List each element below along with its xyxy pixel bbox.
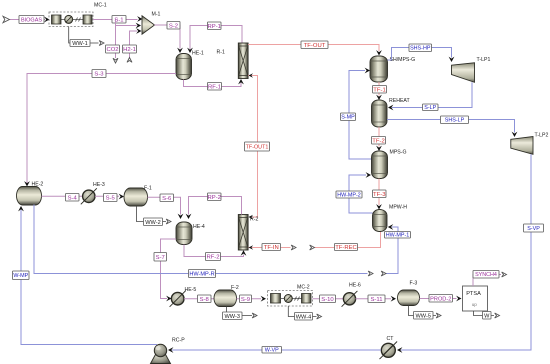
stream connector WW-4 open arrow — [317, 314, 322, 319]
stream label S-5 — [104, 194, 118, 202]
wire TF-1 — [378, 82, 380, 96]
turbine T-LP2 — [511, 137, 533, 155]
stream label S-3 — [92, 70, 106, 78]
wire TF-OUT1 — [248, 76, 257, 218]
svg-text:S-3: S-3 — [94, 72, 104, 78]
svg-text:REHEAT: REHEAT — [389, 98, 410, 104]
stream label S-7 — [154, 253, 167, 262]
heater HE-6 — [343, 293, 355, 305]
svg-text:W-MP: W-MP — [13, 273, 28, 279]
wire HW-MP-1 — [386, 227, 398, 274]
compressor MC-2 stage 2 — [302, 294, 312, 304]
wire PROD-2 — [420, 298, 457, 300]
wire RP-2 — [189, 197, 242, 215]
arrow S-5 into F-1 — [119, 194, 124, 200]
wire S-11 — [356, 298, 392, 300]
stream connector SYNCH4 open arrow — [502, 272, 507, 277]
stream connector TF-IN open arrow — [291, 245, 296, 250]
svg-text:TF-1: TF-1 — [373, 87, 385, 93]
svg-text:R-2: R-2 — [250, 217, 258, 223]
stream label RP-1 — [208, 22, 222, 30]
svg-text:T-LP2: T-LP2 — [535, 133, 549, 139]
svg-text:MC-1: MC-1 — [94, 3, 107, 9]
wire S-MP — [349, 71, 372, 160]
wire S-9 — [237, 298, 262, 300]
stream connector BIOGAS inlet open arrow — [3, 16, 10, 22]
svg-text:SHS-LP: SHS-LP — [445, 118, 465, 124]
arrow TF-OUT1 into R-2 — [249, 215, 254, 220]
svg-text:F-1: F-1 — [144, 186, 152, 192]
vessel HE-1 — [176, 54, 192, 80]
stream label CO2 — [106, 45, 120, 53]
svg-text:CT: CT — [387, 336, 395, 342]
svg-text:HE-6: HE-6 — [349, 283, 361, 289]
compressor MC-2 intercooler — [284, 295, 292, 303]
stream label TF-2 — [372, 137, 386, 145]
svg-text:WW-4: WW-4 — [296, 314, 311, 320]
arrow S-LP into REHEAT — [388, 105, 393, 111]
svg-text:RF-2: RF-2 — [206, 255, 219, 261]
stream connector TF-REC open arrow — [310, 245, 315, 250]
svg-text:W: W — [484, 313, 490, 319]
pump RC-P — [151, 354, 171, 364]
arrow S-VP into CT — [397, 347, 402, 353]
wire S-6 — [148, 197, 181, 214]
compressor MC-2 dashed box — [268, 291, 313, 307]
svg-text:T-LP1: T-LP1 — [477, 57, 491, 63]
stream label WW-1 — [70, 40, 90, 47]
svg-text:MPS-G: MPS-G — [390, 150, 407, 156]
stream label RF-1 — [208, 83, 222, 91]
wire SHS-LP — [387, 120, 515, 133]
wire WW-2 — [137, 206, 167, 222]
svg-text:RC-P: RC-P — [172, 338, 185, 344]
arrow RF-1 into R-1 — [238, 79, 244, 84]
stream connector WW-5 open arrow — [436, 313, 441, 318]
compressor MC-2 stage 1 — [271, 294, 281, 304]
wire S-1 — [93, 19, 138, 21]
wire SHS-HP — [388, 48, 452, 61]
stream label TF-IN — [262, 244, 281, 251]
svg-text:S-4: S-4 — [68, 195, 78, 201]
vessel SH/MPS-G — [370, 56, 388, 82]
arrow RP-2 into HE-4 — [186, 214, 192, 219]
arrow S-7 into HE-5 — [166, 296, 171, 302]
compressor MC-2 shaft breaks — [295, 297, 297, 301]
stream label RF-2 — [206, 253, 221, 261]
stream label TF-3 — [373, 190, 387, 198]
stream label WW-2 — [144, 218, 163, 226]
compressor MC-1 stage 1 — [52, 15, 62, 24]
stream label SHS-LP — [441, 116, 469, 124]
svg-text:F-2: F-2 — [231, 285, 239, 291]
wire S-5 — [95, 195, 119, 197]
wire SYNCH4 — [473, 275, 501, 287]
svg-text:HE-1: HE-1 — [192, 51, 204, 57]
svg-text:SYNCH4: SYNCH4 — [475, 272, 497, 278]
svg-text:S-10: S-10 — [321, 297, 334, 303]
arrow W-VP into RC-P — [168, 347, 173, 353]
wire S-8 — [184, 298, 214, 300]
svg-text:S-7: S-7 — [156, 255, 165, 261]
svg-text:S-VP: S-VP — [527, 226, 540, 232]
stream label S-1 — [112, 16, 126, 24]
wire TF-REC — [315, 232, 381, 248]
reactor column R-2 — [238, 215, 248, 251]
svg-text:HE-4: HE-4 — [193, 224, 205, 230]
stream label TF-OUT — [301, 41, 328, 49]
stream label HW-MP-1 — [385, 232, 411, 239]
svg-text:HW-MP-1: HW-MP-1 — [386, 233, 410, 239]
svg-text:S-9: S-9 — [241, 297, 250, 303]
svg-text:TF-OUT: TF-OUT — [304, 43, 326, 49]
svg-text:MPW-H: MPW-H — [389, 205, 407, 211]
svg-text:S-LP: S-LP — [424, 105, 436, 111]
svg-text:S-5: S-5 — [106, 196, 116, 202]
arrow HW-MP-2 into MPS-G — [366, 172, 371, 178]
wire WW-5 — [409, 306, 437, 316]
wire RF-2 — [184, 245, 244, 257]
arrow TF-IN into R-2 — [249, 245, 254, 250]
reactor column R-1 — [238, 43, 248, 79]
vessel HE-2 — [17, 187, 42, 206]
svg-text:SH/MPS-G: SH/MPS-G — [390, 57, 416, 63]
svg-text:WW-3: WW-3 — [225, 314, 240, 320]
arrow TF-3 into MPW-H — [376, 204, 382, 209]
arrow S-6 into HE-4 — [178, 214, 184, 219]
wire W — [474, 311, 495, 316]
svg-text:HE-5: HE-5 — [185, 287, 197, 293]
wire S-4 — [42, 195, 83, 197]
vessel F-3 — [398, 290, 420, 306]
wire S-2 — [155, 25, 181, 49]
wire RP-1 — [190, 26, 242, 50]
stream connector HW-MP-R open arrow — [368, 271, 373, 276]
svg-text:TF-REC: TF-REC — [335, 245, 357, 251]
heater HE-5 — [171, 292, 184, 305]
svg-text:RP-2: RP-2 — [208, 195, 221, 201]
svg-text:TF-2: TF-2 — [372, 138, 384, 144]
stream label SHS-HP — [409, 44, 432, 52]
stream connector W open arrow — [495, 313, 500, 318]
svg-text:CO2: CO2 — [106, 47, 118, 53]
svg-text:M-1: M-1 — [152, 12, 161, 18]
wire TF-OUT — [248, 45, 379, 52]
stream label TF-REC — [335, 244, 358, 251]
wire S-10 — [313, 298, 344, 300]
stream label TF-1 — [373, 86, 387, 94]
stream label WW-5 — [414, 312, 434, 320]
stream label S-9 — [240, 295, 252, 303]
stream label WW-3 — [223, 312, 243, 320]
svg-text:R-1: R-1 — [217, 50, 225, 56]
compressor MC-1 stage 2 — [83, 15, 92, 24]
wire HW-MP-2 — [349, 175, 373, 213]
compressor MC-1 shaft — [61, 19, 83, 21]
mixer M-1 — [142, 16, 155, 34]
arrow RF-2 into R-2 — [241, 250, 247, 255]
arrow W-MP into HE-2 — [18, 206, 24, 211]
stream label S-8 — [198, 295, 212, 303]
arrow SHS-LP into T-LP2 — [512, 132, 518, 137]
svg-text:WW-1: WW-1 — [72, 41, 87, 47]
wire S-3 — [27, 74, 176, 184]
stream label W-MP — [13, 271, 30, 280]
svg-text:S-11: S-11 — [370, 297, 382, 303]
compressor MC-2 shaft — [281, 298, 302, 300]
separator PTSA — [463, 286, 488, 311]
svg-text:F-3: F-3 — [410, 281, 418, 287]
stream label H2-1 — [123, 45, 137, 53]
arrow into MC-1 — [44, 17, 49, 23]
arrow S-1 into M-1 — [137, 16, 142, 22]
wire TF-2 — [378, 127, 380, 147]
wire TF-3 — [378, 179, 380, 206]
wire CO2 to mixer — [116, 25, 137, 27]
arrow RP-1 into HE-1 — [187, 48, 193, 53]
svg-text:HW-MP-R: HW-MP-R — [189, 272, 214, 278]
svg-text:SHS-HP: SHS-HP — [410, 46, 431, 52]
compressor MC-1 dashed box — [49, 12, 93, 27]
compressor MC-1 intercooler — [65, 15, 73, 23]
wire HW-MP-R — [34, 205, 368, 274]
wire W-MP — [21, 210, 157, 345]
arrow TF-2 into MPS-G — [376, 146, 382, 151]
arrow S-3 into HE-2 — [24, 181, 30, 186]
svg-text:WW-2: WW-2 — [145, 220, 160, 226]
stream label SYNCH4 — [473, 271, 499, 279]
stream connector CO2 outlet open arrow — [113, 58, 118, 63]
stream label RP-2 — [208, 193, 222, 201]
arrow PROD-2 into PTSA — [456, 296, 461, 302]
stream label S-LP — [423, 104, 439, 111]
wire CO2 — [115, 20, 117, 59]
stream label S-6 — [160, 194, 174, 202]
vessel MPW-H — [373, 210, 388, 232]
stream connector WW-1 open arrow — [99, 41, 104, 46]
turbine T-LP1 — [452, 63, 475, 83]
wire S-VP — [401, 154, 531, 350]
svg-text:S-2: S-2 — [169, 23, 178, 29]
svg-text:H2-1: H2-1 — [123, 47, 136, 53]
stream label S-11 — [368, 295, 385, 303]
heater HE-3 — [83, 190, 95, 202]
wire W-VP — [172, 349, 381, 351]
svg-text:WW-5: WW-5 — [416, 313, 431, 319]
svg-text:RP-1: RP-1 — [208, 24, 221, 30]
stream connector WW-2 open arrow — [166, 219, 171, 224]
arrow SHS-HP into T-LP1 — [449, 57, 455, 62]
svg-text:HW-MP-2: HW-MP-2 — [337, 192, 361, 198]
svg-text:S-MP: S-MP — [341, 115, 355, 121]
arrow TF-1 into REHEAT — [376, 95, 382, 100]
wire WW-1 — [69, 27, 99, 44]
arrow HW-MP-1 into MPW-H — [388, 224, 393, 230]
svg-text:HE-3: HE-3 — [93, 182, 105, 188]
svg-text:PTSA: PTSA — [466, 291, 481, 297]
svg-text:W-VP: W-VP — [265, 348, 279, 354]
svg-text:HE-2: HE-2 — [32, 182, 44, 188]
wire BIOGAS feed line — [9, 19, 46, 21]
stream label S-10 — [320, 295, 336, 303]
wire WW-4 — [288, 306, 316, 317]
stream label HW-MP-2 — [336, 191, 362, 198]
svg-text:up: up — [472, 302, 478, 307]
vessel F-1 — [124, 188, 148, 206]
stream label S-MP — [341, 113, 356, 121]
arrow S-11 into F-3 — [391, 296, 396, 302]
stream label S-VP — [524, 224, 544, 232]
svg-text:MC-2: MC-2 — [297, 285, 310, 291]
wire WW-3 — [227, 307, 253, 316]
arrow S-MP into SH/MPS-G — [365, 68, 370, 74]
wire TF-IN — [249, 247, 291, 249]
vessel HE-4 — [176, 222, 192, 245]
stream label BIOGAS — [19, 16, 44, 24]
stream label HW-MP-R — [189, 270, 216, 278]
cooler CT — [381, 343, 395, 357]
stream label W-VP — [262, 347, 282, 354]
arrow CO2 into M-1 — [136, 23, 141, 29]
svg-text:TF-IN: TF-IN — [264, 245, 279, 251]
wire S-LP — [392, 82, 472, 107]
stream connector HW-MP-1 open arrow — [381, 271, 386, 276]
arrow H2-1 into M-1 — [136, 28, 141, 34]
svg-text:BIOGAS: BIOGAS — [21, 17, 42, 23]
arrow S-9 into MC-2 — [261, 296, 266, 302]
svg-text:RF-1: RF-1 — [208, 84, 221, 90]
vessel F-2 — [214, 290, 237, 307]
stream label WW-4 — [295, 313, 313, 321]
wire H2-1 — [130, 31, 138, 58]
arrow TF-OUT into SH/MPS-G — [376, 50, 382, 55]
svg-text:S-6: S-6 — [162, 196, 172, 202]
stream label W — [483, 312, 492, 320]
arrow TF-OUT1 into R-1 — [249, 73, 254, 78]
stream label PROD-2 — [429, 295, 453, 303]
svg-text:TF-3: TF-3 — [373, 192, 386, 198]
vessel REHEAT — [372, 100, 388, 127]
stream label S-2 — [167, 22, 180, 30]
vessel MPS-G — [372, 151, 388, 179]
wire RF-1 — [184, 80, 242, 87]
stream connector H2-1 inlet open arrow — [127, 58, 132, 63]
wire S-7 — [161, 239, 177, 299]
svg-text:TF-OUT1: TF-OUT1 — [246, 144, 269, 150]
stream label S-4 — [66, 194, 80, 202]
svg-text:PROD-2: PROD-2 — [430, 296, 451, 302]
stream label TF-OUT1 — [245, 142, 270, 151]
compressor MC-1 shaft breaks — [76, 18, 78, 22]
arrow S-2 into HE-1 — [177, 48, 183, 53]
stream connector WW-3 open arrow — [252, 313, 257, 318]
svg-text:S-8: S-8 — [200, 297, 210, 303]
